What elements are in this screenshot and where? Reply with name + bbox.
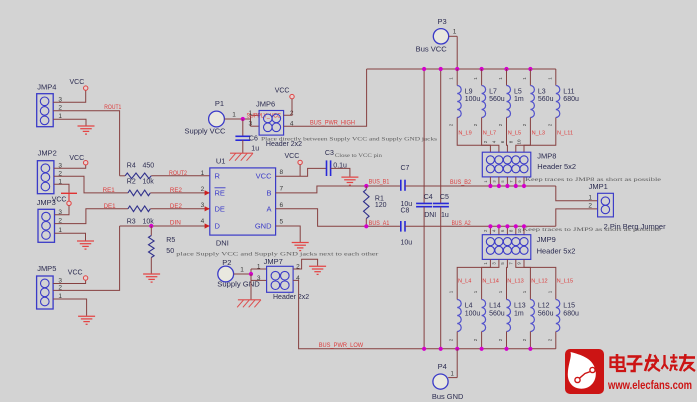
net label BUS_PWR_HIGH xyxy=(310,121,355,127)
svg-text:1m: 1m xyxy=(514,310,524,317)
svg-text:Supply VCC: Supply VCC xyxy=(185,127,227,136)
svg-text:P3: P3 xyxy=(438,17,447,26)
svg-text:N_L14: N_L14 xyxy=(482,279,498,285)
ground C3 xyxy=(341,177,358,185)
wire JMP2 pin2 to RE1 xyxy=(54,176,128,193)
pin 1 mark L7 xyxy=(473,77,478,80)
svg-text:P2: P2 xyxy=(222,258,231,267)
wire R1 top xyxy=(365,186,367,189)
wire rail C5 upper xyxy=(440,69,442,203)
wire U1 pin6 A xyxy=(276,209,401,227)
pin 1 mark L12 xyxy=(522,290,527,293)
wire VCC to JMP6 pin2 xyxy=(284,99,292,115)
header JMP9 xyxy=(482,235,531,260)
wire L14 to bus xyxy=(481,332,483,349)
svg-text:1: 1 xyxy=(453,28,457,35)
svg-text:ROUT2: ROUT2 xyxy=(169,171,188,177)
junction BUS_B1/R1 xyxy=(364,184,368,188)
svg-text:560u: 560u xyxy=(538,96,554,103)
svg-text:Place directly between Supply: Place directly between Supply VCC and Su… xyxy=(261,136,437,142)
label JMP3 xyxy=(37,198,56,207)
header JMP8 xyxy=(482,152,531,177)
pin number 1 P4 xyxy=(451,371,455,377)
wire L7 bottom xyxy=(482,118,499,153)
svg-text:1m: 1m xyxy=(514,96,524,103)
junction bottom bus 5 xyxy=(504,347,508,351)
pin 1 mark L14 xyxy=(473,290,478,293)
wire L3 top xyxy=(529,69,531,86)
U1 pin numbers right xyxy=(280,169,284,225)
label L12 xyxy=(538,303,554,318)
svg-text:JMP7: JMP7 xyxy=(264,257,283,266)
svg-text:N_L11: N_L11 xyxy=(557,130,573,136)
svg-text:BUS_A1: BUS_A1 xyxy=(369,221,390,227)
net label DIN xyxy=(170,221,181,227)
U1 input arrow pin3 xyxy=(205,206,210,211)
svg-text:DE1: DE1 xyxy=(104,204,117,210)
pin 1 mark L4 xyxy=(449,290,454,293)
wire JMP9 to L12 xyxy=(516,259,531,299)
svg-text:100u: 100u xyxy=(465,310,481,317)
wire L4 to bus xyxy=(456,332,458,349)
earth ground C6 xyxy=(229,153,253,161)
pin 2 mark L5 xyxy=(498,123,503,126)
inductor L13 xyxy=(507,300,511,332)
inductor L7 xyxy=(482,86,486,118)
net label N_L15 xyxy=(557,279,573,285)
pin 2 mark L9 xyxy=(449,123,454,126)
wire L12 to bus xyxy=(529,332,531,349)
net label DE2 xyxy=(170,204,183,210)
pin number 1 P3 xyxy=(453,28,457,35)
label L3 xyxy=(538,89,554,103)
net label N_L13 xyxy=(507,279,523,285)
label 2 Pin Berg Jumper xyxy=(604,222,666,231)
svg-text:place Supply VCC and Supply GN: place Supply VCC and Supply GND jacks ne… xyxy=(176,251,378,257)
svg-text:10: 10 xyxy=(517,139,522,145)
label Header 5x2 JMP9 xyxy=(537,246,576,255)
svg-text:L14: L14 xyxy=(489,303,501,310)
svg-text:Close to VCC pin: Close to VCC pin xyxy=(335,153,383,159)
svg-text:3: 3 xyxy=(248,121,252,128)
label C8 xyxy=(401,208,410,215)
connector JMP5 xyxy=(37,276,54,309)
svg-text:B: B xyxy=(266,189,271,198)
wire B to JMP1 pin1 xyxy=(556,186,598,201)
resistor row3 DE xyxy=(128,206,150,212)
power VCC U1 xyxy=(285,153,303,176)
label R5 50 xyxy=(166,237,175,255)
watermark logo box xyxy=(565,349,604,394)
svg-text:JMP1: JMP1 xyxy=(589,182,608,191)
svg-text:3: 3 xyxy=(257,275,261,282)
svg-text:L5: L5 xyxy=(514,89,522,96)
junctions JMP9 on BUS_A xyxy=(488,224,526,228)
svg-text:1u: 1u xyxy=(251,145,259,152)
wire JMP9 to L13 xyxy=(506,259,509,299)
pin 2 mark L11 xyxy=(547,123,552,126)
wire JMP9 to L4 xyxy=(457,259,490,299)
wire JMP5 pin1 to ground xyxy=(53,299,87,316)
svg-text:1: 1 xyxy=(248,110,252,117)
label L7 xyxy=(489,89,505,103)
svg-text:L15: L15 xyxy=(563,303,575,310)
svg-text:C4: C4 xyxy=(424,194,433,201)
wire JMP2 pin3 to VCC xyxy=(54,165,86,168)
svg-text:2: 2 xyxy=(201,186,205,193)
pin 2 mark L14 xyxy=(473,338,478,341)
svg-text:DE2: DE2 xyxy=(170,204,183,210)
resistor row2 RE xyxy=(128,190,150,196)
label R2 10k xyxy=(127,179,154,186)
net label N_L7 xyxy=(483,130,496,136)
junction bottom bus 4 xyxy=(480,347,484,351)
label Supply GND xyxy=(217,280,260,289)
svg-text:Header 2x2: Header 2x2 xyxy=(273,294,309,301)
svg-text:N_L5: N_L5 xyxy=(508,130,521,136)
svg-text:1u: 1u xyxy=(441,212,449,219)
note close to VCC pin xyxy=(335,153,383,159)
svg-text:Bus GND: Bus GND xyxy=(432,392,464,401)
wire JMP2 pin1 down xyxy=(54,184,69,192)
svg-text:N_L3: N_L3 xyxy=(532,130,545,136)
label L11 xyxy=(563,89,579,103)
svg-text:L9: L9 xyxy=(465,89,473,96)
svg-text:2: 2 xyxy=(588,203,592,210)
net label ROUT1 xyxy=(104,105,122,111)
note place directly xyxy=(261,136,437,142)
pin numbers JMP3 xyxy=(58,209,62,234)
net label BUS_PWR_LOW xyxy=(319,343,364,349)
junction P2/ground xyxy=(249,272,253,276)
svg-text:Keep traces to JMP9 as short a: Keep traces to JMP9 as short as possible xyxy=(522,227,662,233)
svg-text:8: 8 xyxy=(280,169,284,176)
label JMP6 xyxy=(256,99,275,108)
label Header 2x2 JMP6 xyxy=(266,141,302,148)
wire C3 to ground xyxy=(331,168,350,176)
svg-text:A: A xyxy=(266,204,271,213)
svg-text:L12: L12 xyxy=(538,303,550,310)
net label N_L9 xyxy=(458,130,471,136)
label L4 xyxy=(465,303,481,318)
svg-text:560u: 560u xyxy=(489,96,505,103)
label Supply VCC xyxy=(185,127,227,136)
label Bus GND xyxy=(432,392,464,401)
wire B after C7 xyxy=(405,185,556,187)
wire P3 stub xyxy=(449,36,458,69)
power VCC JMP2 xyxy=(69,155,88,165)
svg-text:5: 5 xyxy=(280,218,284,225)
net label BUS_B1 xyxy=(369,179,390,185)
label L13 xyxy=(514,303,526,318)
svg-text:VCC: VCC xyxy=(68,269,83,276)
svg-text:10k: 10k xyxy=(143,179,155,186)
label L14 xyxy=(489,303,505,318)
wire JMP3 pin1 to ground xyxy=(55,233,86,240)
svg-text:R4: R4 xyxy=(127,163,136,170)
svg-text:Bus VCC: Bus VCC xyxy=(416,45,448,54)
label Header 2x2 JMP7 xyxy=(273,294,309,301)
label Header 5x2 JMP8 xyxy=(537,162,576,171)
svg-text:VCC: VCC xyxy=(275,87,290,94)
svg-text:N_L9: N_L9 xyxy=(458,130,471,136)
pin 2 mark L7 xyxy=(473,123,478,126)
svg-text:P1: P1 xyxy=(215,99,224,108)
pin 2 mark L13 xyxy=(498,338,503,341)
header JMP7 xyxy=(267,266,294,292)
svg-text:680u: 680u xyxy=(563,96,579,103)
power VCC JMP4 xyxy=(70,79,88,90)
svg-text:VCC: VCC xyxy=(285,153,300,160)
wire C6 drop xyxy=(242,119,244,136)
label JMP2 xyxy=(38,148,57,157)
pin 1 mark L13 xyxy=(498,290,503,293)
label Bus VCC xyxy=(416,45,448,54)
pin 2 mark L4 xyxy=(449,338,454,341)
svg-text:DNI: DNI xyxy=(216,238,229,247)
wire DE row xyxy=(150,208,210,210)
wire JMP9 to L14 xyxy=(482,259,499,299)
wire U1 pin7 B xyxy=(276,186,401,193)
capacitor C7 xyxy=(401,180,405,191)
pin number 1 P1 xyxy=(232,111,236,118)
net label BUS_A2 xyxy=(452,221,472,227)
ground U1 xyxy=(292,243,309,251)
label JMP7 xyxy=(264,257,283,266)
capacitor C3 xyxy=(327,160,331,176)
label R4 450 xyxy=(127,163,154,170)
wire rail C4 lower xyxy=(423,207,425,349)
wire JMP3 pin3 to VCC xyxy=(55,206,70,215)
pin numbers JMP9 top xyxy=(483,228,522,233)
watermark url xyxy=(607,380,692,392)
inductor L3 xyxy=(530,86,534,118)
wire L13 to bus xyxy=(506,332,508,349)
svg-text:D: D xyxy=(215,222,221,231)
net label RE2 xyxy=(170,188,183,194)
svg-text:N_L13: N_L13 xyxy=(507,279,523,285)
net label SUPPLY_VCC xyxy=(247,113,282,119)
svg-text:R: R xyxy=(215,171,221,180)
junction top bus 1 xyxy=(422,67,426,71)
svg-text:6: 6 xyxy=(280,202,284,209)
U1 input arrow pin4 xyxy=(205,223,210,228)
label P4 xyxy=(438,362,447,371)
capacitor C8 xyxy=(401,221,405,232)
svg-text:U1: U1 xyxy=(216,156,226,165)
svg-text:Header 5x2: Header 5x2 xyxy=(537,246,576,255)
label L5 xyxy=(514,89,524,103)
wire JMP5 pin3 to VCC xyxy=(53,280,86,283)
svg-text:7: 7 xyxy=(280,185,284,192)
net label N_L14 xyxy=(482,279,498,285)
note place jacks xyxy=(176,251,378,257)
label DNI C4 xyxy=(424,212,436,219)
pin 1 mark L5 xyxy=(498,77,503,80)
inductor L12 xyxy=(530,300,534,332)
pin numbers JMP2 xyxy=(58,162,62,185)
wire JMP7 pin4 BUS_PWR_LOW xyxy=(293,280,556,348)
resistor R1 120 xyxy=(364,189,370,218)
net label N_L4 xyxy=(458,279,471,285)
svg-text:3: 3 xyxy=(201,202,205,209)
inductor L15 xyxy=(556,300,560,332)
svg-text:560u: 560u xyxy=(538,310,554,317)
wire top bus xyxy=(367,68,556,70)
svg-text:680u: 680u xyxy=(563,310,579,317)
svg-text:JMP6: JMP6 xyxy=(256,99,275,108)
pin 2 mark L15 xyxy=(547,338,552,341)
wires JMP9 top stubs xyxy=(490,226,524,234)
wire A to JMP1 pin2 xyxy=(556,209,598,226)
pin numbers JMP1 xyxy=(588,194,592,209)
junction bottom bus 1 xyxy=(422,347,426,351)
svg-text:BUS_PWR_LOW: BUS_PWR_LOW xyxy=(319,343,364,349)
net label N_L5 xyxy=(508,130,521,136)
label L15 xyxy=(563,303,579,318)
pin 1 mark L3 xyxy=(522,77,527,80)
capacitor C5 xyxy=(433,203,449,206)
junction bottom bus 2 xyxy=(439,347,443,351)
wire ROUT row xyxy=(120,175,210,177)
svg-text:DNI: DNI xyxy=(424,212,436,219)
label L9 xyxy=(465,89,481,103)
svg-text:C5: C5 xyxy=(440,194,449,201)
pin numbers JMP7 xyxy=(257,263,300,281)
svg-text:BUS_PWR_HIGH: BUS_PWR_HIGH xyxy=(310,121,355,127)
svg-text:1: 1 xyxy=(588,194,592,201)
svg-text:VCC: VCC xyxy=(69,155,84,162)
label P2 xyxy=(222,258,231,267)
svg-text:10u: 10u xyxy=(401,239,413,246)
svg-text:JMP2: JMP2 xyxy=(38,148,57,157)
wire L3 bottom xyxy=(516,118,531,153)
svg-text:L7: L7 xyxy=(489,89,497,96)
wire DIN row xyxy=(120,225,210,227)
svg-text:1: 1 xyxy=(232,111,236,118)
svg-text:JMP9: JMP9 xyxy=(537,235,556,244)
earth ground P2 xyxy=(237,300,261,308)
wire L11 top xyxy=(555,69,557,86)
pin numbers JMP6 xyxy=(248,110,293,128)
inductor L5 xyxy=(507,86,511,118)
note keep traces JMP8 xyxy=(525,177,662,183)
wire L9 bottom xyxy=(457,118,490,153)
label C5 xyxy=(440,194,449,201)
wire P1 to JMP6 xyxy=(224,115,259,126)
connector P2 xyxy=(218,266,234,282)
net label BUS_A1 xyxy=(369,221,390,227)
header JMP6 xyxy=(259,111,284,136)
pin 1 mark L9 xyxy=(449,77,454,80)
svg-text:www.elecfans.com: www.elecfans.com xyxy=(607,380,692,392)
connector JMP3 xyxy=(38,209,55,242)
svg-text:120: 120 xyxy=(375,202,387,209)
label JMP8 xyxy=(537,151,556,160)
wire JMP7 pin2 to ground xyxy=(293,259,318,269)
inductor L4 xyxy=(457,300,461,332)
connector JMP2 xyxy=(37,161,54,194)
wire P2 ground drop xyxy=(250,274,252,300)
wire R5 to ground xyxy=(150,258,152,274)
label R3 10k xyxy=(127,218,155,225)
wire L11 bottom xyxy=(524,118,556,153)
pin 2 mark L3 xyxy=(522,123,527,126)
watermark chinese text xyxy=(611,354,696,371)
net label N_L11 xyxy=(557,130,573,136)
connector P1 xyxy=(209,111,225,127)
pin 1 mark L11 xyxy=(547,77,552,80)
ground JMP5 xyxy=(78,316,95,324)
wire JMP5 pin2 to DIN xyxy=(53,226,120,290)
svg-text:450: 450 xyxy=(143,163,155,170)
svg-text:N_L7: N_L7 xyxy=(483,130,496,136)
wire L5 bottom xyxy=(506,118,509,153)
wire U1 pin8 VCC xyxy=(276,168,327,176)
svg-text:DIN: DIN xyxy=(170,221,181,227)
svg-text:R3: R3 xyxy=(127,218,136,225)
net label DE1 xyxy=(104,204,117,210)
label DNI U1 xyxy=(216,238,229,247)
svg-text:BUS_B1: BUS_B1 xyxy=(369,179,390,185)
wire JMP4 pin1 to ground xyxy=(53,119,86,125)
U1 input arrow pin2 xyxy=(205,190,210,195)
pin numbers JMP4 xyxy=(58,96,62,120)
svg-text:L13: L13 xyxy=(514,303,526,310)
svg-text:JMP3: JMP3 xyxy=(37,198,56,207)
power VCC JMP6 xyxy=(275,87,294,98)
junction DIN/R5 xyxy=(149,224,153,228)
pin numbers JMP9 bottom xyxy=(483,262,522,265)
label C4 xyxy=(424,194,433,201)
junction top bus 5 xyxy=(504,67,508,71)
svg-text:DE: DE xyxy=(215,204,225,213)
connector JMP1 xyxy=(598,193,614,217)
svg-text:BUS_A2: BUS_A2 xyxy=(452,221,472,227)
svg-text:C7: C7 xyxy=(401,165,410,172)
connector P4 xyxy=(433,374,448,389)
capacitor C4 xyxy=(416,203,432,206)
net label BUS_B2 xyxy=(450,180,472,186)
svg-text:C3: C3 xyxy=(325,150,334,157)
label C6 value xyxy=(251,145,259,152)
wire L5 top xyxy=(506,69,508,86)
wire L15 to bus xyxy=(555,332,557,349)
label P3 xyxy=(438,17,447,26)
label R1 xyxy=(375,195,387,209)
svg-text:VCC: VCC xyxy=(70,79,85,86)
wire L7 top xyxy=(481,69,483,86)
svg-text:N_L12: N_L12 xyxy=(531,279,547,285)
wire RE row xyxy=(150,192,210,194)
pin 2 mark L12 xyxy=(522,338,527,341)
wire JMP4 pin3 to VCC xyxy=(53,90,85,102)
junction P1/C6 xyxy=(241,117,245,121)
label C7 xyxy=(401,165,410,172)
label C7 value xyxy=(401,201,413,208)
svg-text:C8: C8 xyxy=(401,208,410,215)
U1 pin names left xyxy=(215,171,226,230)
label P1 xyxy=(215,99,224,108)
label JMP4 xyxy=(37,82,56,91)
svg-text:1: 1 xyxy=(240,267,244,274)
svg-text:L3: L3 xyxy=(538,89,546,96)
svg-text:100u: 100u xyxy=(465,96,481,103)
pin number 1 P2 xyxy=(240,267,244,274)
svg-text:JMP4: JMP4 xyxy=(37,82,56,91)
junction bottom bus 3 xyxy=(455,347,459,351)
svg-text:10: 10 xyxy=(517,228,522,233)
